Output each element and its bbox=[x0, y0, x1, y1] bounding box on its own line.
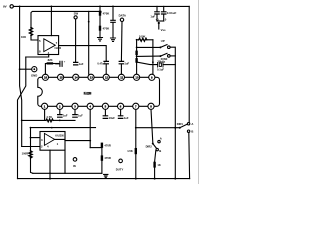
wire: box2 corner drop bbox=[64, 150, 66, 173]
svg-text:7: 7 bbox=[56, 41, 58, 45]
svg-text:12: 12 bbox=[105, 76, 109, 80]
svg-text:15: 15 bbox=[60, 76, 64, 80]
node: bus-left junction bbox=[19, 6, 21, 8]
switch DOWN bbox=[137, 55, 160, 57]
capacitor C top-right 2 bbox=[163, 6, 165, 11]
ground mid-bottom bbox=[104, 174, 108, 177]
svg-text:10K: 10K bbox=[21, 35, 26, 39]
wire: left col to box2 bbox=[30, 128, 32, 151]
svg-text:SW: SW bbox=[74, 12, 79, 16]
wire to ground bbox=[112, 23, 114, 38]
capacitor C top-right 1 bbox=[156, 6, 158, 11]
svg-text:100R: 100R bbox=[22, 152, 28, 156]
svg-text:10: 10 bbox=[135, 76, 139, 80]
wire: pin16 to resistor 82K bbox=[45, 64, 46, 75]
svg-text:A: A bbox=[191, 122, 193, 126]
capacitor pin6 1uF bbox=[118, 116, 122, 119]
svg-text:1K: 1K bbox=[157, 163, 160, 167]
wire bbox=[101, 148, 103, 156]
svg-text:IN: IN bbox=[73, 164, 76, 168]
svg-text:4.7K: 4.7K bbox=[46, 115, 52, 119]
capacitor pin3 bbox=[73, 115, 77, 118]
svg-text:470K: 470K bbox=[103, 26, 110, 30]
pin 11 bbox=[118, 74, 124, 80]
wire: op-amp supply drop bbox=[50, 6, 52, 35]
svg-text:KA2298: KA2298 bbox=[84, 91, 92, 96]
ground 470K column bbox=[98, 38, 103, 41]
op-amp U2 box bbox=[38, 36, 59, 55]
svg-text:9V: 9V bbox=[3, 5, 7, 9]
resistor 4.7K horizontal bbox=[46, 119, 53, 122]
pin 8 bbox=[148, 103, 154, 109]
resistor 10K vertical bbox=[30, 28, 33, 36]
wire: resistor to op-amp input bbox=[31, 36, 38, 41]
right scan border bbox=[197, 0, 199, 184]
op-amp U3 box bbox=[40, 132, 65, 151]
svg-text:14: 14 bbox=[75, 76, 79, 80]
wire: pin1 drop bbox=[44, 109, 46, 120]
wire: DIR1 feed bbox=[136, 127, 179, 129]
capacitor pin11 1uF bbox=[119, 61, 123, 63]
node: bus junction 470K column bbox=[99, 6, 101, 8]
svg-text:1uF: 1uF bbox=[79, 62, 84, 66]
pin 4 bbox=[87, 103, 93, 109]
svg-text:0: 0 bbox=[165, 17, 167, 21]
wire: L2 into op-amp U3 bbox=[22, 146, 40, 148]
node: bus junction op-amp supply bbox=[51, 6, 53, 8]
svg-text:11: 11 bbox=[120, 76, 123, 80]
resistor 82K bbox=[47, 62, 54, 64]
capacitor top pin15 bbox=[60, 61, 62, 66]
wire bbox=[155, 151, 156, 162]
op-amp U2 triangle bbox=[44, 39, 56, 52]
wire: gnd terminal stub bbox=[20, 68, 32, 70]
op-amp U3 triangle bbox=[44, 133, 54, 145]
pin 5 bbox=[102, 103, 108, 109]
resistor R 100K horizontal top right bbox=[136, 39, 138, 41]
node: caps join bbox=[157, 20, 164, 22]
wire: pin7 column bbox=[135, 109, 137, 148]
Vcc terminal bbox=[10, 5, 13, 8]
wire: 100R to rail1 bbox=[31, 157, 33, 173]
wire bbox=[136, 55, 138, 58]
node: rail dots bbox=[135, 178, 137, 180]
resistor 1K bbox=[153, 162, 155, 168]
pin 12 bbox=[103, 74, 109, 80]
pin 2 bbox=[57, 103, 63, 109]
resistor 470R upper bbox=[101, 143, 103, 148]
resistor R 470K lower bbox=[99, 26, 101, 31]
pin 16 bbox=[42, 74, 48, 80]
resistor 470R lower bbox=[101, 155, 103, 160]
capacitor pin2 bbox=[58, 115, 62, 118]
svg-text:1uF: 1uF bbox=[78, 114, 83, 118]
pin 10 bbox=[134, 74, 140, 80]
svg-text:470R: 470R bbox=[104, 156, 110, 160]
resistor 100R left-bottom bbox=[30, 150, 32, 152]
svg-text:B: B bbox=[159, 149, 161, 153]
wire: pin10 column top bbox=[136, 40, 138, 51]
wire: pin9 column bbox=[152, 40, 154, 74]
wire bbox=[99, 16, 101, 26]
svg-text:0.01uF: 0.01uF bbox=[167, 11, 177, 15]
svg-text:B: B bbox=[191, 130, 193, 134]
svg-text:DATA: DATA bbox=[119, 14, 126, 18]
svg-text:82K: 82K bbox=[48, 58, 53, 62]
node dots pin10 col bbox=[136, 47, 138, 49]
rail y120.4 bbox=[22, 119, 46, 121]
terminal DUTY bbox=[119, 159, 123, 163]
svg-text:470K: 470K bbox=[103, 11, 110, 15]
svg-text:16: 16 bbox=[44, 76, 48, 80]
capacitor C top mid bbox=[111, 20, 115, 22]
wire bbox=[112, 6, 114, 20]
terminal GND bbox=[32, 67, 37, 72]
svg-text:1uF: 1uF bbox=[63, 114, 68, 118]
pin 1 bbox=[42, 103, 48, 109]
svg-text:470R: 470R bbox=[104, 143, 110, 147]
svg-text:UP: UP bbox=[161, 39, 165, 43]
resistor block lower pin10 col bbox=[135, 58, 137, 63]
IC U1 KA2298 body bbox=[38, 77, 160, 106]
pin 3 bbox=[72, 103, 78, 109]
svg-text:10uF: 10uF bbox=[109, 116, 116, 120]
svg-text:GND: GND bbox=[31, 74, 37, 78]
svg-text:DUTY: DUTY bbox=[116, 167, 124, 171]
wire: U3 output bbox=[55, 139, 65, 140]
wire to pin10 bbox=[136, 63, 138, 74]
pin 14 bbox=[73, 74, 79, 80]
capacitor pin5 10uF bbox=[103, 116, 107, 119]
resistor R 470K upper bbox=[99, 11, 101, 16]
wire: feedback loop top bbox=[31, 11, 101, 28]
svg-text:KA2208: KA2208 bbox=[55, 47, 62, 51]
svg-text:A: A bbox=[160, 136, 162, 140]
rail1 y173.3 bbox=[33, 172, 102, 174]
wire: pin8 column bbox=[151, 109, 153, 142]
rail y147.6 bbox=[90, 147, 102, 149]
svg-text:+: + bbox=[64, 61, 66, 64]
svg-text:2: 2 bbox=[41, 144, 43, 148]
svg-text:0.47uF: 0.47uF bbox=[97, 62, 105, 66]
pin 15 bbox=[58, 74, 64, 80]
capacitor pin12 0.47uF bbox=[104, 61, 108, 63]
wire: L2 top corner to op-amp pin4 bbox=[26, 55, 49, 58]
rail y126.9 bbox=[31, 127, 96, 129]
svg-text:1uF: 1uF bbox=[124, 62, 129, 66]
wire: 470K column bbox=[99, 6, 101, 10]
rail2 y178.6 bbox=[18, 178, 190, 180]
svg-text:3: 3 bbox=[41, 138, 43, 142]
pin 9 bbox=[149, 74, 155, 80]
svg-text:5: 5 bbox=[39, 39, 41, 43]
pin 7 bbox=[133, 103, 139, 109]
wire: bus right corner down bbox=[188, 6, 190, 122]
svg-text:1uF: 1uF bbox=[124, 116, 129, 120]
wire: pin4 column bbox=[89, 109, 91, 147]
svg-text:100K: 100K bbox=[139, 35, 145, 39]
wire: left vertical L2 crossing bbox=[18, 57, 26, 179]
wire: DATA drop to pin11 cap bbox=[120, 22, 123, 61]
svg-text:1: 1 bbox=[57, 142, 59, 146]
wire to ground bbox=[101, 161, 103, 174]
terminal REC bbox=[73, 158, 77, 162]
wire: Vss stub bbox=[158, 23, 160, 29]
node: bus junction cap column bbox=[112, 6, 114, 8]
wire bbox=[53, 63, 59, 65]
wire: box2 bottom drop bbox=[49, 150, 51, 178]
svg-text:4: 4 bbox=[47, 145, 49, 149]
svg-text:KA2208: KA2208 bbox=[55, 133, 64, 138]
svg-text:8: 8 bbox=[39, 49, 41, 53]
svg-text:1.5K: 1.5K bbox=[127, 149, 133, 153]
pin 6 bbox=[118, 103, 124, 109]
svg-text:Vss: Vss bbox=[161, 28, 166, 32]
svg-text:0.1uF: 0.1uF bbox=[157, 68, 164, 72]
resistor 1.5K bbox=[135, 148, 137, 154]
svg-text:13: 13 bbox=[90, 76, 94, 80]
node: pin13 wire dot bbox=[88, 21, 90, 23]
svg-text:DIR2: DIR2 bbox=[146, 144, 153, 148]
wire: B down to rail bbox=[188, 132, 191, 178]
pin 13 bbox=[88, 74, 94, 80]
svg-text:DIR1: DIR1 bbox=[177, 122, 184, 126]
capacitor pin14 1uF bbox=[74, 62, 78, 65]
wire to ground bbox=[99, 31, 101, 38]
wire: left vertical L1 bbox=[20, 6, 22, 146]
wire: top supply bus bbox=[13, 5, 189, 7]
ground cap column bbox=[111, 38, 116, 41]
resistor block upper pin10 col bbox=[135, 51, 137, 56]
wire: op-amp U2 output to pin12 cap bbox=[59, 46, 107, 61]
node: GND stub junction bbox=[19, 68, 21, 70]
wire: pin13 drop bbox=[88, 11, 90, 74]
